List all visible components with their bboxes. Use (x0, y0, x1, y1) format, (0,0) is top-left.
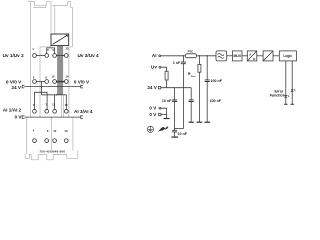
wire isolation to logic (273, 55, 279, 57)
svg-text:10 nF: 10 nF (178, 132, 188, 136)
LED line end bar 2 (291, 103, 294, 105)
terminal 14 (64, 80, 68, 84)
module upper-section vertical x55 (54, 5, 56, 34)
R shunt resistor box (198, 64, 201, 72)
svg-text:0 V/0 V: 0 V/0 V (6, 79, 22, 84)
terminal 13 (64, 54, 68, 58)
row1 bracket terminal5-terminal9 (47, 48, 55, 54)
ground bar R shunt (197, 121, 203, 123)
24V terminal contact symbol (158, 87, 160, 89)
row3 feed rail from bus (41, 94, 66, 96)
terminal 5 (45, 54, 49, 58)
capacitor 10nF bottom plates (172, 130, 177, 132)
ground bar cap1 (205, 121, 211, 123)
Uv wire to resistor (161, 67, 167, 71)
bus-feed junction dot (56, 94, 57, 95)
svg-text:0 V: 0 V (149, 112, 157, 117)
internal gray power bus bar (57, 46, 63, 95)
face top shelf right of symbol box (69, 46, 73, 48)
24V right spring contact symbol (81, 85, 83, 88)
1nF drop from AI line (182, 56, 184, 62)
face top shelf left of symbol box (40, 46, 51, 48)
10nF chain lower lead (174, 132, 176, 137)
terminal 12 (53, 139, 57, 143)
terminal 16 (64, 139, 68, 143)
junction AI/Rshunt (199, 55, 200, 56)
terminal 4 (33, 139, 37, 143)
bottom section vertical x72.9 (72, 117, 74, 151)
junction AI/100nF (207, 55, 208, 56)
1nF lower lead down to earth node (182, 64, 184, 129)
100nF cap1 drop from AI line (206, 56, 208, 80)
module left outer edge (30, 2, 32, 117)
capacitor 100nF c1 plates (205, 80, 210, 82)
row2 thick bus bar terminal10-terminal14 (57, 81, 65, 83)
LED line end bar 1 (284, 103, 287, 105)
AI input terminal circle (159, 55, 161, 57)
terminal 3 (33, 109, 37, 113)
ground bar 0V node (164, 118, 170, 120)
R shunt lower lead to ground (198, 72, 200, 122)
junction dot on 24V rail (41, 86, 42, 87)
junction 0V node (166, 114, 167, 115)
svg-text:AI 3/AI 4: AI 3/AI 4 (74, 109, 93, 114)
0V wire right then down (161, 108, 167, 118)
svg-text:24 V: 24 V (147, 85, 157, 90)
svg-text:PTC: PTC (188, 50, 194, 54)
100nF cap2 lower lead to ground (190, 102, 192, 122)
24V drop to 100nF cap2 (190, 88, 192, 100)
terminal 7 (45, 109, 49, 113)
terminal 10 (53, 80, 57, 84)
0V power jumper rail (24, 116, 80, 118)
bottom section left edge (26, 117, 28, 154)
Uv terminal circle (159, 66, 161, 68)
junction AI/1nF (183, 55, 184, 56)
24V rail line (161, 87, 191, 89)
terminal 1 (33, 54, 37, 58)
svg-text:13: 13 (65, 47, 69, 51)
earth node branch (175, 128, 184, 130)
svg-text:Uv 3/Uv 4: Uv 3/Uv 4 (78, 53, 99, 58)
svg-text:0 V: 0 V (149, 106, 157, 111)
0V circle terminal (159, 107, 161, 109)
svg-text:14: 14 (65, 75, 69, 79)
row1 wire terminal1-terminal5 (36, 55, 44, 57)
svg-text:1 nF: 1 nF (173, 61, 181, 65)
100nF cap1 lower lead to ground (206, 82, 208, 122)
face separator x40 (39, 47, 41, 117)
junction earth node (174, 128, 175, 129)
row3 feed drop to terminal15 (65, 95, 67, 110)
wire filter to MUX (227, 55, 233, 57)
terminal 6 (45, 80, 49, 84)
capacitor 10nF top plates (172, 100, 177, 102)
LED drive line 1 (Function) (285, 61, 287, 104)
svg-text:Shunt: Shunt (191, 75, 196, 78)
capacitor 100nF c2 plates (189, 100, 194, 102)
wire MUX to A/D (242, 55, 248, 57)
wire resistor to 24V rail (166, 80, 168, 88)
functional earth circle symbol (147, 126, 153, 132)
svg-text:16: 16 (65, 129, 69, 133)
Function LED on left line (285, 95, 290, 97)
0V contact symbol second row (159, 113, 161, 115)
AI signal line (161, 55, 216, 57)
logic box (279, 51, 296, 61)
svg-text:Logic: Logic (283, 54, 292, 58)
face separator x63.6 (63, 96, 65, 118)
10nF chain drop from 24V rail (174, 88, 176, 100)
terminal 8 (45, 139, 49, 143)
svg-text:15: 15 (65, 103, 69, 107)
24V left spring contact symbol (22, 85, 24, 88)
face separator x61.6 (61, 96, 63, 118)
row2 wire terminal2-terminal6 (36, 81, 44, 83)
svg-text:0 V: 0 V (14, 115, 22, 120)
row1 bus junction dot (63, 55, 64, 56)
24V power jumper rail (24, 86, 80, 88)
terminal circles 4 rows x 4 columns (33, 54, 69, 143)
terminal 2 (33, 80, 37, 84)
Uv series resistor (165, 71, 168, 80)
MUX box (233, 51, 243, 61)
capacitor 1nF plates (181, 62, 186, 64)
svg-text:100 nF: 100 nF (211, 79, 223, 83)
terminal number labels (32, 47, 69, 133)
symbol box with diagonal arrow (analog input symbol) (51, 34, 69, 46)
svg-text:750-455/040-000: 750-455/040-000 (39, 150, 65, 154)
svg-text:10: 10 (51, 75, 55, 79)
Error LED on right line (291, 89, 296, 91)
wire row2 down to 24V rail and row3 feed (40, 82, 42, 95)
10nF chain mid section (174, 102, 176, 131)
A/D converter box (247, 51, 256, 61)
svg-text:Uv 1/Uv 2: Uv 1/Uv 2 (3, 53, 24, 58)
svg-text:10 nF: 10 nF (162, 99, 172, 103)
svg-text:12: 12 (53, 129, 57, 133)
module upper-section vertical x49.8 (50, 2, 52, 47)
PTC thermistor on AI line (185, 54, 196, 58)
terminal 9 (53, 54, 57, 58)
0V second row wire (161, 114, 167, 116)
ground bar cap2 (189, 121, 194, 123)
svg-text:Uv: Uv (151, 65, 157, 70)
module bottom rail-foot profile (25, 151, 78, 160)
svg-text:AI 1/AI 2: AI 1/AI 2 (3, 108, 22, 113)
low pass filter box (216, 51, 227, 61)
0V right spring contact symbol (81, 116, 83, 119)
svg-text:MUX: MUX (233, 54, 241, 58)
bottom section vertical x51.5 (51, 117, 53, 151)
terminal 11 (53, 109, 57, 113)
0V left spring contact symbol (22, 116, 24, 119)
ground bar 10nF chain (171, 136, 178, 138)
svg-text:Function: Function (270, 93, 285, 97)
terminal 15 (64, 109, 68, 113)
wire A/D to isolation (257, 55, 263, 57)
svg-text:AI: AI (152, 53, 157, 58)
row1 wire terminal9-terminal13 (57, 55, 65, 57)
LED drive line 2 (Error) (291, 61, 293, 104)
galvanic isolation box (263, 51, 273, 61)
svg-text:0 V/0 V: 0 V/0 V (74, 79, 90, 84)
module upper right edge (71, 7, 73, 47)
svg-text:100 nF: 100 nF (210, 99, 222, 103)
DIN rail claw symbol (158, 126, 169, 132)
row3 feed bracket terminals 3-7 (35, 92, 48, 109)
row3 feed drop to terminal11 (54, 95, 56, 110)
R shunt drop from AI line (198, 56, 200, 65)
face right edge (68, 47, 70, 117)
svg-text:11: 11 (52, 103, 55, 107)
module top housing profile (28, 1, 72, 7)
svg-text:24 V: 24 V (11, 85, 22, 90)
